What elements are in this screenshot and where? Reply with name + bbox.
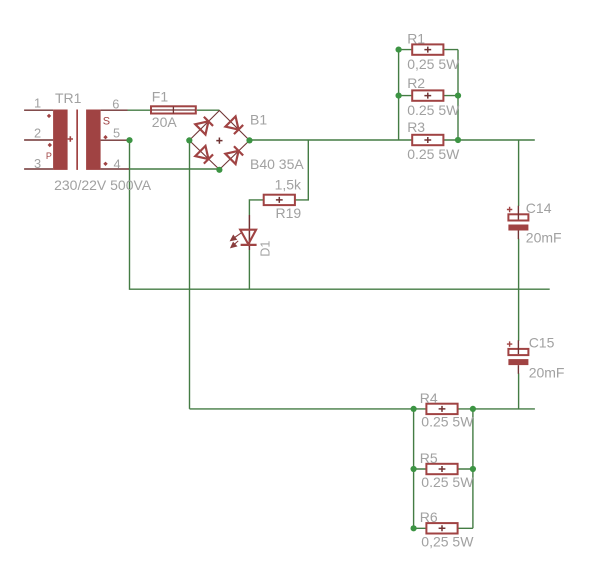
svg-text:1: 1 [34, 96, 41, 111]
svg-text:R4: R4 [420, 390, 438, 406]
svg-text:0.25 5W: 0.25 5W [421, 414, 474, 430]
svg-text:R5: R5 [420, 450, 438, 466]
svg-text:R2: R2 [407, 75, 425, 91]
svg-text:R1: R1 [407, 30, 425, 46]
svg-text:S: S [103, 116, 110, 128]
svg-text:P: P [46, 151, 52, 161]
svg-text:0.25 5W: 0.25 5W [407, 146, 460, 162]
svg-text:3: 3 [34, 156, 41, 171]
svg-text:F1: F1 [152, 88, 169, 104]
svg-text:C15: C15 [529, 334, 555, 350]
svg-text:230/22V 500VA: 230/22V 500VA [54, 177, 152, 193]
svg-text:TR1: TR1 [55, 90, 82, 106]
svg-text:1,5k: 1,5k [275, 176, 302, 192]
svg-text:5: 5 [113, 126, 120, 141]
svg-text:B40 35A: B40 35A [250, 156, 304, 172]
svg-text:20mF: 20mF [529, 364, 565, 380]
svg-text:D1: D1 [258, 241, 272, 257]
svg-text:R6: R6 [420, 509, 438, 525]
svg-text:4: 4 [114, 156, 121, 171]
svg-text:R3: R3 [407, 119, 425, 135]
svg-text:20mF: 20mF [526, 230, 562, 246]
svg-text:C14: C14 [526, 200, 552, 216]
svg-text:0.25 5W: 0.25 5W [421, 474, 474, 490]
svg-text:6: 6 [112, 97, 119, 112]
svg-text:0,25 5W: 0,25 5W [407, 56, 460, 72]
svg-text:B1: B1 [250, 112, 267, 128]
svg-text:2: 2 [34, 126, 41, 141]
svg-text:20A: 20A [152, 114, 178, 130]
svg-text:0.25 5W: 0.25 5W [407, 102, 460, 118]
svg-text:0,25 5W: 0,25 5W [421, 534, 474, 550]
svg-text:R19: R19 [276, 205, 302, 221]
